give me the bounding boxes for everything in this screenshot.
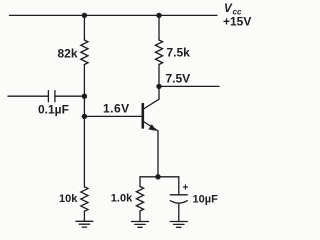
wire left branch upper xyxy=(83,15,85,40)
wire 1.0k to ground xyxy=(139,211,141,222)
wire right branch upper xyxy=(158,15,160,40)
svg-text:0.1µF: 0.1µF xyxy=(38,103,69,117)
ground below 10uF xyxy=(170,222,187,228)
wire input left xyxy=(8,95,48,97)
node base junction xyxy=(82,114,87,119)
wire base xyxy=(84,115,142,117)
capacitor 0.1uF xyxy=(48,91,55,102)
svg-text:82k: 82k xyxy=(58,47,78,61)
wire collector xyxy=(158,86,160,99)
label Vcc xyxy=(224,3,242,17)
svg-text:+15V: +15V xyxy=(223,15,251,29)
transistor Q1 xyxy=(143,99,159,131)
node emitter junction xyxy=(155,174,160,179)
svg-text:10µF: 10µF xyxy=(193,194,219,206)
wire input right xyxy=(55,95,85,97)
wire emitter xyxy=(157,131,159,177)
wire emitter tee xyxy=(140,176,179,178)
svg-text:7.5V: 7.5V xyxy=(166,72,191,86)
resistor 7.5k xyxy=(155,40,162,65)
wire left branch middle xyxy=(83,65,85,188)
node input junction xyxy=(82,94,87,99)
wire 10k lower xyxy=(83,211,85,221)
node rail-left junction xyxy=(82,13,87,18)
wire top supply rail xyxy=(10,14,218,16)
svg-text:10k: 10k xyxy=(59,193,78,205)
ground below 10k xyxy=(76,221,93,227)
svg-text:7.5k: 7.5k xyxy=(167,46,191,60)
resistor 1.0k xyxy=(136,187,143,212)
resistor 10k xyxy=(81,187,88,212)
ground below 1.0k xyxy=(132,222,149,228)
node collector junction xyxy=(156,84,161,89)
svg-text:1.6V: 1.6V xyxy=(103,102,130,116)
wire collector voltage lead xyxy=(159,85,219,87)
svg-text:1.0k: 1.0k xyxy=(111,193,133,205)
wire right branch lower xyxy=(158,65,160,87)
capacitor 10uF xyxy=(170,195,187,203)
wire to 10uF xyxy=(178,177,180,195)
wire 10uF to ground xyxy=(178,203,180,221)
wire to 1.0k xyxy=(139,177,141,187)
node rail-right junction xyxy=(156,13,161,18)
svg-text:+: + xyxy=(183,183,189,194)
resistor 82k xyxy=(81,40,88,65)
